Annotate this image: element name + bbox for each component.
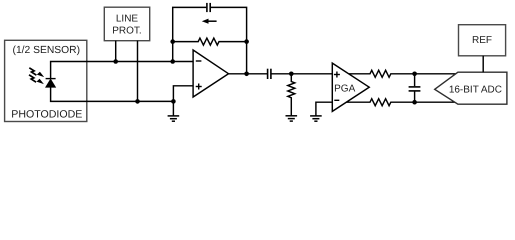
node: line prot bottom junction <box>135 99 140 104</box>
wire: bottom rail ground stub <box>172 101 174 115</box>
wire: photodiode anode bottom rail <box>51 87 174 102</box>
op-amp U1 <box>193 50 228 97</box>
16-bit ADC block <box>435 72 507 104</box>
svg-text:REF: REF <box>472 35 492 46</box>
variable arrow <box>202 19 217 24</box>
feedback loop left vertical <box>173 7 207 61</box>
node: line prot top junction <box>113 59 118 64</box>
svg-text:(1/2 SENSOR): (1/2 SENSOR) <box>13 45 81 56</box>
ground symbol G1 <box>168 116 180 121</box>
wire + resistor R4 bottom output <box>346 99 455 106</box>
wire: ref to adc <box>482 56 484 72</box>
wire: line prot right lead <box>137 41 139 102</box>
svg-text:16-BIT ADC: 16-BIT ADC <box>449 84 502 95</box>
PGA A2 <box>332 63 369 111</box>
svg-text:PROT.: PROT. <box>112 26 141 37</box>
node: bottom rail junction at ground tap <box>171 99 176 104</box>
PGA minus <box>334 99 339 101</box>
svg-text:PHOTODIODE: PHOTODIODE <box>11 109 82 121</box>
node: adc input top <box>412 72 417 77</box>
wire: PGA minus to ground <box>316 102 332 116</box>
resistor R2 to ground <box>288 74 295 116</box>
REF box <box>459 25 506 56</box>
node: feedback resistor right <box>244 39 249 44</box>
op-amp plus <box>196 84 202 90</box>
differential capacitor C3 <box>409 74 421 102</box>
PGA plus <box>334 72 340 78</box>
wire: line prot left lead <box>115 41 117 62</box>
series capacitor C2 <box>268 69 271 79</box>
feedback resistor R1 <box>173 38 247 45</box>
op-amp minus <box>196 60 202 62</box>
light arrow 1 <box>29 68 44 77</box>
wire: bottom rail up to op-amp + input <box>173 86 193 102</box>
ground symbol G2 <box>286 116 298 121</box>
svg-text:LINE: LINE <box>116 14 139 25</box>
light arrow 2 <box>29 75 44 84</box>
node: inverting input junction <box>170 59 175 64</box>
node: adc input bottom <box>412 100 417 105</box>
wire: cap to PGA <box>271 73 332 75</box>
feedback loop top right <box>211 7 247 73</box>
node: highpass junction <box>289 72 294 77</box>
svg-text:PGA: PGA <box>334 83 355 94</box>
photodiode module box <box>5 40 87 121</box>
node: feedback resistor left <box>170 39 175 44</box>
feedback capacitor C1 <box>207 3 210 12</box>
wire: photodiode cathode to op-amp inverting input <box>51 62 194 80</box>
wire: op-amp output <box>228 73 267 75</box>
photodiode D1 <box>46 79 56 88</box>
node: op-amp output feedback junction <box>244 72 249 77</box>
line protection box <box>104 7 149 41</box>
ground symbol G3 <box>310 116 322 121</box>
wire + resistor R3 top output <box>349 70 456 77</box>
